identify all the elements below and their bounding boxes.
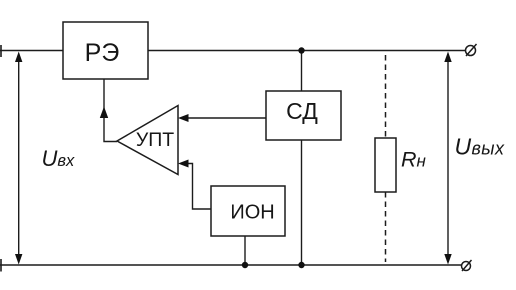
junction dot bottom rail left [242,262,248,268]
wire СД to УПТ with arrow [181,117,266,119]
wire dashed above Rн [385,55,387,138]
block СД [266,91,341,140]
terminal top-right [466,44,477,56]
wire ИОН to УПТ with arrow [181,164,211,210]
wire СД top to rail [301,51,303,92]
wire УПТ to РЭ with mid arrow [104,79,117,142]
block РЭ [63,22,148,79]
svg-text:Rн: Rн [401,147,427,171]
op-amp УПТ [117,106,178,175]
wire СД bottom to rail [301,140,303,265]
svg-text:ИОН: ИОН [230,202,274,224]
block ИОН [211,186,285,236]
node Uвх arrow [18,54,20,262]
terminal bottom-right [462,260,472,271]
wire ИОН bottom to rail [244,236,246,265]
wire dashed below Rн [385,192,387,262]
svg-text:СД: СД [286,98,318,124]
svg-text:УПТ: УПТ [136,129,174,151]
wire bottom rail [0,264,462,266]
wire top rail left segment [0,50,63,52]
wire top rail right segment [148,50,466,52]
svg-text:РЭ: РЭ [85,39,120,67]
node Uвых arrow [447,54,449,262]
junction dot top rail [298,47,304,53]
junction dot bottom rail right [298,262,304,268]
resistor Rн [375,138,427,192]
terminal tick bottom-left [0,259,2,272]
terminal tick top-left [0,45,2,57]
